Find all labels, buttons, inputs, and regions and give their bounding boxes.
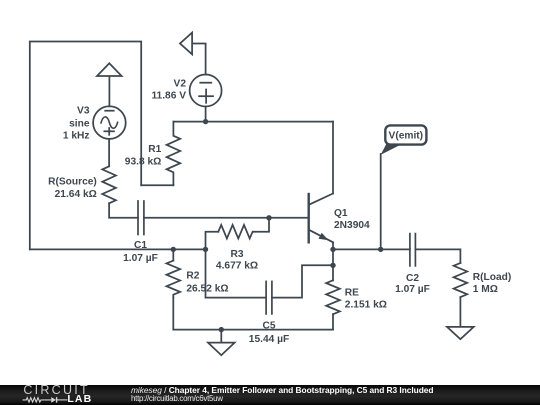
node emitter junction [330, 247, 335, 252]
footer bar [0, 385, 540, 405]
svg-text:15.44 µF: 15.44 µF [249, 334, 289, 345]
wire R1 bottom to loop [141, 184, 173, 186]
wire R2 bottom leg [172, 298, 174, 330]
wire C5 right to emitter column [272, 265, 333, 297]
CircuitLab logo [23, 383, 89, 397]
svg-text:1 kHz: 1 kHz [63, 131, 90, 142]
svg-text:1.07 µF: 1.07 µF [123, 253, 158, 264]
ground (bottom middle) [208, 343, 235, 356]
node V2-/R1/collector junction [203, 119, 208, 124]
wire RE bottom [332, 314, 334, 329]
resistor RE [326, 280, 340, 314]
svg-text:21.64 kΩ: 21.64 kΩ [55, 189, 97, 200]
svg-text:2N3904: 2N3904 [334, 220, 370, 231]
svg-text:V3: V3 [77, 106, 90, 117]
svg-text:RE: RE [345, 288, 359, 299]
wire emitter column to C5 node [332, 249, 334, 265]
wire ground stub bottom [220, 330, 222, 343]
wire R2 top leg [172, 249, 174, 260]
node R2 top junction [171, 247, 176, 252]
svg-text:1.07 µF: 1.07 µF [395, 284, 430, 295]
node R3/C5 left junction [203, 247, 208, 252]
svg-text:sine: sine [69, 118, 90, 129]
svg-text:93.8 kΩ: 93.8 kΩ [125, 156, 162, 167]
resistor R1 [167, 122, 181, 186]
capacitor C2 [409, 234, 411, 266]
wire bottom rail [173, 329, 333, 331]
wire C1 to base [144, 217, 309, 219]
footer text [131, 385, 433, 395]
svg-text:4.677 kΩ: 4.677 kΩ [216, 261, 258, 272]
wire C5 node to RE [332, 265, 334, 280]
svg-text:V(emit): V(emit) [389, 130, 424, 141]
transistor Q1 [308, 194, 310, 242]
wire lower-left rail [30, 248, 206, 250]
svg-text:2.151 kΩ: 2.151 kΩ [345, 300, 387, 311]
svg-text:V2: V2 [174, 79, 187, 90]
svg-text:R(Source): R(Source) [48, 177, 97, 188]
voltage source V3 sine [93, 106, 126, 139]
resistor R3 [218, 225, 253, 239]
voltage source V2 [190, 75, 222, 107]
svg-text:Q1: Q1 [334, 208, 348, 219]
capacitor C1 [137, 201, 139, 235]
wire R1 top to rail [173, 121, 205, 123]
logo resistor-diode glyph [22, 396, 68, 404]
resistor R2 [167, 261, 181, 298]
svg-text:C2: C2 [406, 273, 419, 284]
wire emitter down [332, 242, 334, 249]
node V(emit)/C2 junction [378, 247, 383, 252]
wire R3 node down to C5 [206, 249, 267, 297]
svg-text:C5: C5 [262, 320, 275, 331]
svg-text:C1: C1 [134, 240, 147, 251]
wire V3 bottom to R(Source) [108, 139, 110, 166]
resistor R(Load) [454, 263, 468, 297]
svg-text:26.52 kΩ: 26.52 kΩ [186, 283, 228, 294]
svg-text:1 MΩ: 1 MΩ [473, 284, 498, 295]
wire R3 left leg [206, 232, 219, 250]
wire C2 to R(Load) [415, 249, 460, 263]
wire V2 top [192, 44, 206, 75]
svg-text:R2: R2 [186, 271, 199, 282]
svg-text:R3: R3 [230, 249, 243, 260]
svg-text:R(Load): R(Load) [473, 272, 511, 283]
wire emitter rail [333, 248, 410, 250]
node flag V(emit) [381, 125, 427, 154]
wire R(Load) bottom [459, 297, 461, 327]
node C5 right/RE junction [330, 263, 335, 268]
wire V(emit) riser [380, 154, 382, 249]
resistor R(Source) [102, 166, 116, 203]
wire V2 bottom [205, 107, 207, 122]
wire V3 top [108, 76, 110, 106]
ground (right) [447, 327, 474, 339]
wire R3 right leg [253, 218, 269, 232]
wire rail V+ to collector [206, 121, 333, 123]
wire collector [332, 122, 334, 194]
capacitor C5 [265, 281, 267, 314]
svg-text:11.86 V: 11.86 V [151, 91, 186, 102]
node ground junction [219, 327, 224, 332]
node base/R3 junction [266, 215, 271, 220]
svg-text:R1: R1 [148, 144, 161, 155]
wire R(Source) to C1 [109, 203, 138, 218]
port flag up at V3 [97, 63, 122, 76]
wire top-left loop [30, 42, 141, 250]
port flag left at V2 [180, 33, 192, 55]
